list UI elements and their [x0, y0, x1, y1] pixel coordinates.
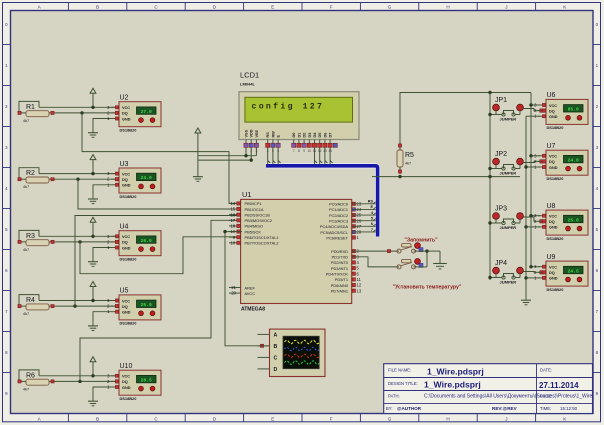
svg-text:PD2/INT0: PD2/INT0: [331, 260, 349, 265]
wire GND rail to U9: [524, 276, 540, 279]
jumper JP4: [493, 260, 524, 285]
svg-text:U1: U1: [242, 190, 252, 199]
svg-text:"Запомнить": "Запомнить": [404, 238, 438, 244]
svg-text:26.0: 26.0: [141, 238, 152, 244]
temperature sensor U4 DS18B20: [107, 224, 161, 262]
ground symbol right sensors: [521, 296, 531, 305]
resistor R2 4k7 pull-up: [18, 168, 56, 190]
oscilloscope: [258, 329, 326, 376]
svg-text:F: F: [330, 416, 333, 421]
svg-text:VCC: VCC: [122, 106, 130, 110]
svg-text:E: E: [271, 5, 274, 10]
svg-text:24.0: 24.0: [141, 175, 152, 181]
svg-text:85.0: 85.0: [568, 107, 579, 113]
svg-text:F: F: [330, 5, 333, 10]
svg-text:12: 12: [357, 283, 362, 288]
svg-text:PC3/ADC3: PC3/ADC3: [329, 218, 348, 223]
svg-text:4k7: 4k7: [405, 162, 411, 166]
svg-text:U9: U9: [547, 254, 556, 261]
svg-text:VCC: VCC: [549, 155, 557, 159]
svg-text:D5: D5: [318, 133, 322, 138]
wire VCC rail vertical right: [530, 93, 532, 267]
svg-text:JP4: JP4: [495, 260, 507, 267]
svg-text:U7: U7: [547, 143, 556, 150]
svg-text:@AUTHOR: @AUTHOR: [397, 406, 422, 411]
svg-text:7: 7: [293, 149, 295, 153]
svg-text:4k7: 4k7: [23, 185, 29, 189]
svg-text:JUMPER: JUMPER: [500, 225, 517, 230]
svg-text:VCC: VCC: [549, 266, 557, 270]
wire JP3 to U8 DQ: [523, 217, 543, 223]
svg-text:JUMPER: JUMPER: [500, 280, 517, 285]
svg-text:U3: U3: [120, 161, 129, 168]
svg-text:J: J: [505, 5, 507, 10]
svg-text:U4: U4: [120, 224, 129, 231]
svg-text:PC0/ADC0: PC0/ADC0: [329, 202, 349, 207]
wire VCC rail to U3: [39, 172, 119, 175]
svg-text:DQ: DQ: [122, 305, 128, 309]
svg-text:DS18B20: DS18B20: [120, 128, 137, 133]
LCD display LCD1 LM044L: [239, 71, 359, 140]
bus LCD to MCU port C: [266, 166, 378, 237]
wire GND rail vertical right: [525, 116, 527, 296]
wire GND pin U2: [93, 119, 111, 129]
wire VCC rail to U2: [39, 106, 119, 109]
svg-text:DQ: DQ: [549, 160, 555, 164]
svg-text:DQ: DQ: [122, 178, 128, 182]
svg-text:E: E: [277, 135, 281, 138]
svg-text:28.5: 28.5: [141, 377, 152, 383]
svg-text:R3: R3: [26, 233, 35, 240]
svg-text:D6: D6: [323, 133, 327, 138]
svg-text:LM044L: LM044L: [240, 82, 255, 87]
svg-text:J: J: [505, 416, 507, 421]
svg-text:D3: D3: [308, 133, 312, 138]
svg-text:13: 13: [357, 288, 362, 293]
wire VCC rail to U4: [39, 235, 119, 238]
temperature sensor U7 DS18B20: [534, 143, 588, 181]
wire DQ line R3 to U4: [56, 240, 119, 243]
svg-text:U10: U10: [120, 363, 133, 370]
wire GND rail to U6: [526, 115, 540, 117]
svg-text:10: 10: [308, 149, 312, 153]
svg-text:VCC: VCC: [549, 104, 557, 108]
svg-text:D0: D0: [292, 133, 296, 138]
resistor R4 4k7 pull-up: [18, 295, 56, 317]
svg-text:DQ: DQ: [122, 380, 128, 384]
svg-text:DESIGN TITLE:: DESIGN TITLE:: [388, 381, 418, 386]
svg-text:4k7: 4k7: [23, 387, 29, 391]
wire U1 PD0 to button 1: [352, 250, 399, 253]
wire GND rail to U7: [524, 165, 540, 168]
svg-text:PD0/RXD: PD0/RXD: [331, 249, 348, 254]
wire VCC rail to U6: [529, 103, 540, 106]
svg-text:H: H: [446, 5, 449, 10]
svg-text:6: 6: [371, 222, 373, 226]
temperature sensor U5 DS18B20: [107, 288, 161, 326]
svg-text:24.0: 24.0: [568, 157, 579, 163]
wire VCC rail to U10: [39, 374, 119, 377]
svg-text:B: B: [274, 344, 278, 350]
svg-text:DQ: DQ: [122, 241, 128, 245]
jumper JP2: [493, 151, 524, 176]
wire U1 PD1 to button 2: [352, 257, 399, 267]
svg-text:1_Wire.pdsprj: 1_Wire.pdsprj: [427, 367, 484, 377]
svg-text:D7: D7: [329, 133, 333, 138]
svg-text:RS: RS: [368, 200, 374, 204]
svg-text:DQ: DQ: [549, 271, 555, 275]
svg-text:DQ: DQ: [549, 220, 555, 224]
svg-text:GND: GND: [549, 115, 558, 119]
svg-text:B: B: [96, 5, 99, 10]
jumper JP1: [493, 97, 524, 122]
svg-text:JP2: JP2: [495, 151, 507, 158]
wire JP1 to U6 DQ: [523, 109, 543, 113]
wire JP3 link to rail: [488, 221, 520, 224]
ground symbol buttons: [433, 264, 447, 269]
temperature sensor U2 DS18B20: [107, 95, 161, 133]
temperature sensor U8 DS18B20: [534, 203, 588, 241]
svg-text:R2: R2: [26, 170, 35, 177]
svg-text:DS18B20: DS18B20: [547, 176, 564, 181]
svg-text:U8: U8: [547, 203, 556, 210]
svg-text:GND: GND: [122, 246, 131, 250]
svg-text:GND: GND: [122, 311, 131, 315]
svg-text:RW: RW: [271, 131, 275, 138]
svg-text:D1: D1: [297, 133, 301, 138]
svg-text:"Установить температуру": "Установить температуру": [393, 285, 462, 291]
svg-text:PD4/T0/XCK: PD4/T0/XCK: [326, 272, 349, 277]
LCD1 pins 1-14: [244, 129, 338, 153]
svg-text:27.0: 27.0: [141, 109, 152, 115]
power VCC symbol for U3: [90, 155, 96, 174]
ground symbol for U4: [88, 258, 98, 267]
svg-text:AVCC: AVCC: [245, 291, 256, 296]
svg-text:DQ: DQ: [122, 112, 128, 116]
resistor R3 4k7 pull-up: [18, 230, 56, 252]
wire JP4 link to rail: [488, 276, 520, 279]
svg-text:JP1: JP1: [495, 97, 507, 104]
svg-text:DS18B20: DS18B20: [547, 287, 564, 292]
wire GND rail to U8: [524, 225, 540, 228]
svg-text:8: 8: [298, 149, 300, 153]
svg-text:25.0: 25.0: [568, 217, 579, 223]
svg-text:PC5/ADC5/SCL: PC5/ADC5/SCL: [320, 230, 349, 235]
svg-text:DATE:: DATE:: [540, 368, 552, 373]
wire DQ channel5 to PB3: [80, 220, 242, 381]
svg-text:17: 17: [231, 218, 236, 223]
svg-text:PD5/T1: PD5/T1: [335, 277, 348, 282]
wire VCC rail to U7: [529, 154, 540, 157]
svg-text:U5: U5: [120, 288, 129, 295]
svg-text:PC4/ADC4/SDA: PC4/ADC4/SDA: [320, 224, 349, 229]
svg-text:27.11.2014: 27.11.2014: [539, 381, 579, 390]
svg-text:G: G: [388, 5, 392, 10]
svg-text:PD1/TXD: PD1/TXD: [332, 255, 349, 260]
wire U1 PB5 to oscilloscope B: [223, 230, 269, 348]
svg-text:DQ: DQ: [549, 109, 555, 113]
svg-text:VCC: VCC: [122, 375, 130, 379]
wire DQ channel3 to PB6: [80, 237, 242, 274]
svg-text:GND: GND: [122, 184, 131, 188]
svg-text:TIME:: TIME:: [540, 406, 551, 411]
svg-text:R4: R4: [26, 297, 35, 304]
microcontroller U1 ATMEGA8: [229, 190, 362, 313]
wire DQ channel4 to PB2: [75, 216, 242, 307]
svg-text:PB3/MOSI/OC2: PB3/MOSI/OC2: [245, 218, 272, 223]
svg-text:JP3: JP3: [495, 206, 507, 213]
svg-text:JUMPER: JUMPER: [500, 171, 517, 176]
svg-text:VEE: VEE: [255, 129, 259, 137]
svg-text:DS18B20: DS18B20: [120, 194, 137, 199]
svg-text:10: 10: [231, 240, 236, 245]
svg-text:D: D: [274, 367, 278, 373]
svg-text:E: E: [271, 416, 274, 421]
wire GND pin U5: [93, 312, 111, 322]
svg-text:DS18B20: DS18B20: [120, 321, 137, 326]
wire LCD VDD to power: [198, 147, 253, 161]
svg-text:4k7: 4k7: [23, 312, 29, 316]
svg-text:7: 7: [371, 228, 373, 232]
svg-text:GND: GND: [122, 117, 131, 121]
svg-text:25.0: 25.0: [141, 302, 152, 308]
svg-text:PD6/AIN0: PD6/AIN0: [331, 283, 349, 288]
svg-text:R1: R1: [26, 104, 35, 111]
wire JP2 link to rail: [488, 167, 520, 170]
svg-text:PC6/RESET: PC6/RESET: [326, 235, 348, 240]
temperature sensor U10 DS18B20: [107, 363, 161, 401]
svg-text:PB2/SS/OC1B: PB2/SS/OC1B: [245, 212, 271, 217]
push button 'Установить температуру': [393, 259, 462, 291]
svg-text:DS18B20: DS18B20: [547, 125, 564, 130]
temperature sensor U9 DS18B20: [534, 254, 588, 292]
svg-text:24.5: 24.5: [568, 268, 579, 274]
svg-text:JUMPER: JUMPER: [500, 117, 517, 122]
svg-text:GND: GND: [549, 226, 558, 230]
svg-text:VCC: VCC: [122, 172, 130, 176]
svg-text:H: H: [446, 416, 449, 421]
svg-text:15:12:50: 15:12:50: [560, 406, 578, 411]
svg-text:16: 16: [231, 212, 236, 217]
svg-text:A: A: [274, 333, 278, 339]
push button 'Запомнить': [397, 238, 438, 254]
svg-text:RS: RS: [266, 132, 270, 138]
ground symbol for U10: [88, 397, 98, 406]
svg-text:4k7: 4k7: [23, 248, 29, 252]
svg-text:REV:@REV: REV:@REV: [492, 406, 518, 411]
wire VCC rail to U9: [529, 265, 540, 268]
svg-text:VCC: VCC: [549, 215, 557, 219]
svg-text:DS18B20: DS18B20: [120, 257, 137, 262]
svg-text:U2: U2: [120, 95, 129, 102]
wire DQ line R1 to U2: [56, 111, 119, 114]
svg-text:14: 14: [231, 201, 236, 206]
resistor R1 4k7 pull-up: [18, 101, 56, 123]
temperature sensor U3 DS18B20: [107, 161, 161, 199]
wire JP2 to U7 DQ: [523, 160, 543, 163]
wire DQ channel1 to PB0: [82, 113, 242, 203]
svg-text:15: 15: [231, 207, 236, 212]
ground symbol for U2: [88, 129, 98, 138]
svg-text:config: config: [252, 102, 295, 112]
jumper JP3: [493, 206, 524, 231]
svg-text:21: 21: [231, 285, 236, 290]
svg-text:PAGE:: PAGE:: [540, 394, 553, 399]
wire JP4 to U9 DQ: [523, 271, 543, 274]
svg-text:C: C: [274, 356, 278, 362]
svg-text:R5: R5: [405, 152, 414, 159]
svg-text:AREF: AREF: [245, 285, 256, 290]
svg-text:GND: GND: [549, 277, 558, 281]
svg-text:VSS: VSS: [245, 129, 249, 137]
svg-text:PD3/INT1: PD3/INT1: [331, 266, 348, 271]
wire buttons common to ground: [414, 249, 441, 266]
wire VCC rail to U8: [529, 214, 540, 217]
wire GND pin U4: [93, 248, 111, 258]
svg-text:R6: R6: [26, 372, 35, 379]
wire JP1 link to rail: [488, 113, 520, 116]
power VCC symbol for U2: [90, 88, 96, 107]
svg-text:PB7/TOSC2/XTAL2: PB7/TOSC2/XTAL2: [245, 241, 279, 246]
svg-text:127: 127: [303, 103, 325, 112]
svg-text:GND: GND: [549, 166, 558, 170]
svg-text:B: B: [96, 416, 99, 421]
power VCC symbol for LCD: [195, 128, 201, 173]
wire jumper rail vertical: [489, 93, 491, 281]
temperature sensor U6 DS18B20: [534, 92, 588, 130]
svg-text:9: 9: [303, 149, 305, 153]
ground symbol for LCD: [193, 173, 203, 182]
svg-text:11: 11: [357, 277, 362, 282]
wires U1 port C to bus with net labels: [352, 200, 376, 232]
svg-text:C:\Documents and Settings\All: C:\Documents and Settings\All Users\Доку…: [424, 393, 593, 399]
ground symbol for U5: [88, 322, 98, 331]
wire DQ line R6 to U10: [56, 380, 119, 383]
svg-text:5: 5: [371, 216, 373, 220]
wire R5 top to VCC rail: [400, 91, 531, 143]
svg-text:ATMEGA8: ATMEGA8: [241, 307, 265, 313]
svg-text:20: 20: [231, 291, 236, 296]
wire 1-wire DQ line: [372, 175, 520, 178]
power VCC symbol for U10: [90, 357, 96, 376]
svg-text:PB5/SCK: PB5/SCK: [245, 229, 262, 234]
wire GND pin U3: [93, 185, 111, 195]
svg-text:D2: D2: [303, 133, 307, 138]
svg-text:PD7/AIN1: PD7/AIN1: [331, 289, 348, 294]
wire VCC rail to U5: [39, 299, 119, 302]
svg-text:18: 18: [231, 224, 236, 229]
svg-text:GND: GND: [122, 386, 131, 390]
title block: [384, 364, 593, 414]
wire DQ line R4 to U5: [56, 304, 119, 307]
svg-text:PATH:: PATH:: [388, 394, 400, 399]
wire DQ line R2 to U3: [56, 178, 119, 181]
wire DQ channel2 to PB1: [78, 179, 242, 209]
svg-text:U6: U6: [547, 92, 556, 99]
resistor R5 4k7: [397, 143, 414, 174]
wire LCD VSS VEE to ground: [198, 147, 257, 157]
svg-text:DS18B20: DS18B20: [547, 236, 564, 241]
svg-text:VCC: VCC: [122, 235, 130, 239]
svg-text:PB6/TOSC1/XTAL1: PB6/TOSC1/XTAL1: [245, 235, 279, 240]
svg-text:1_Wire.pdsprj: 1_Wire.pdsprj: [424, 380, 481, 390]
resistor R6 4k7 pull-up: [18, 370, 56, 392]
svg-text:VDD: VDD: [250, 129, 254, 137]
power VCC symbol for U4: [90, 217, 96, 236]
svg-text:4k7: 4k7: [23, 119, 29, 123]
power VCC symbol for U5: [90, 282, 96, 301]
wire GND pin U10: [93, 387, 111, 397]
wire LCD bus entries RS RW E D4-D7: [268, 147, 333, 164]
svg-text:PB0/ICP1: PB0/ICP1: [245, 201, 262, 206]
ground symbol for U3: [88, 195, 98, 204]
svg-text:PC1/ADC1: PC1/ADC1: [329, 207, 348, 212]
svg-text:VCC: VCC: [122, 299, 130, 303]
svg-text:PB1/OC1A: PB1/OC1A: [245, 207, 264, 212]
svg-text:BY:: BY:: [386, 406, 393, 411]
svg-text:LCD1: LCD1: [240, 71, 259, 80]
svg-text:DS18B20: DS18B20: [120, 396, 137, 401]
svg-text:FILE NAME:: FILE NAME:: [388, 368, 411, 373]
svg-text:PB4/MISO: PB4/MISO: [245, 224, 263, 229]
svg-text:PC2/ADC2: PC2/ADC2: [329, 213, 348, 218]
svg-text:G: G: [388, 416, 392, 421]
